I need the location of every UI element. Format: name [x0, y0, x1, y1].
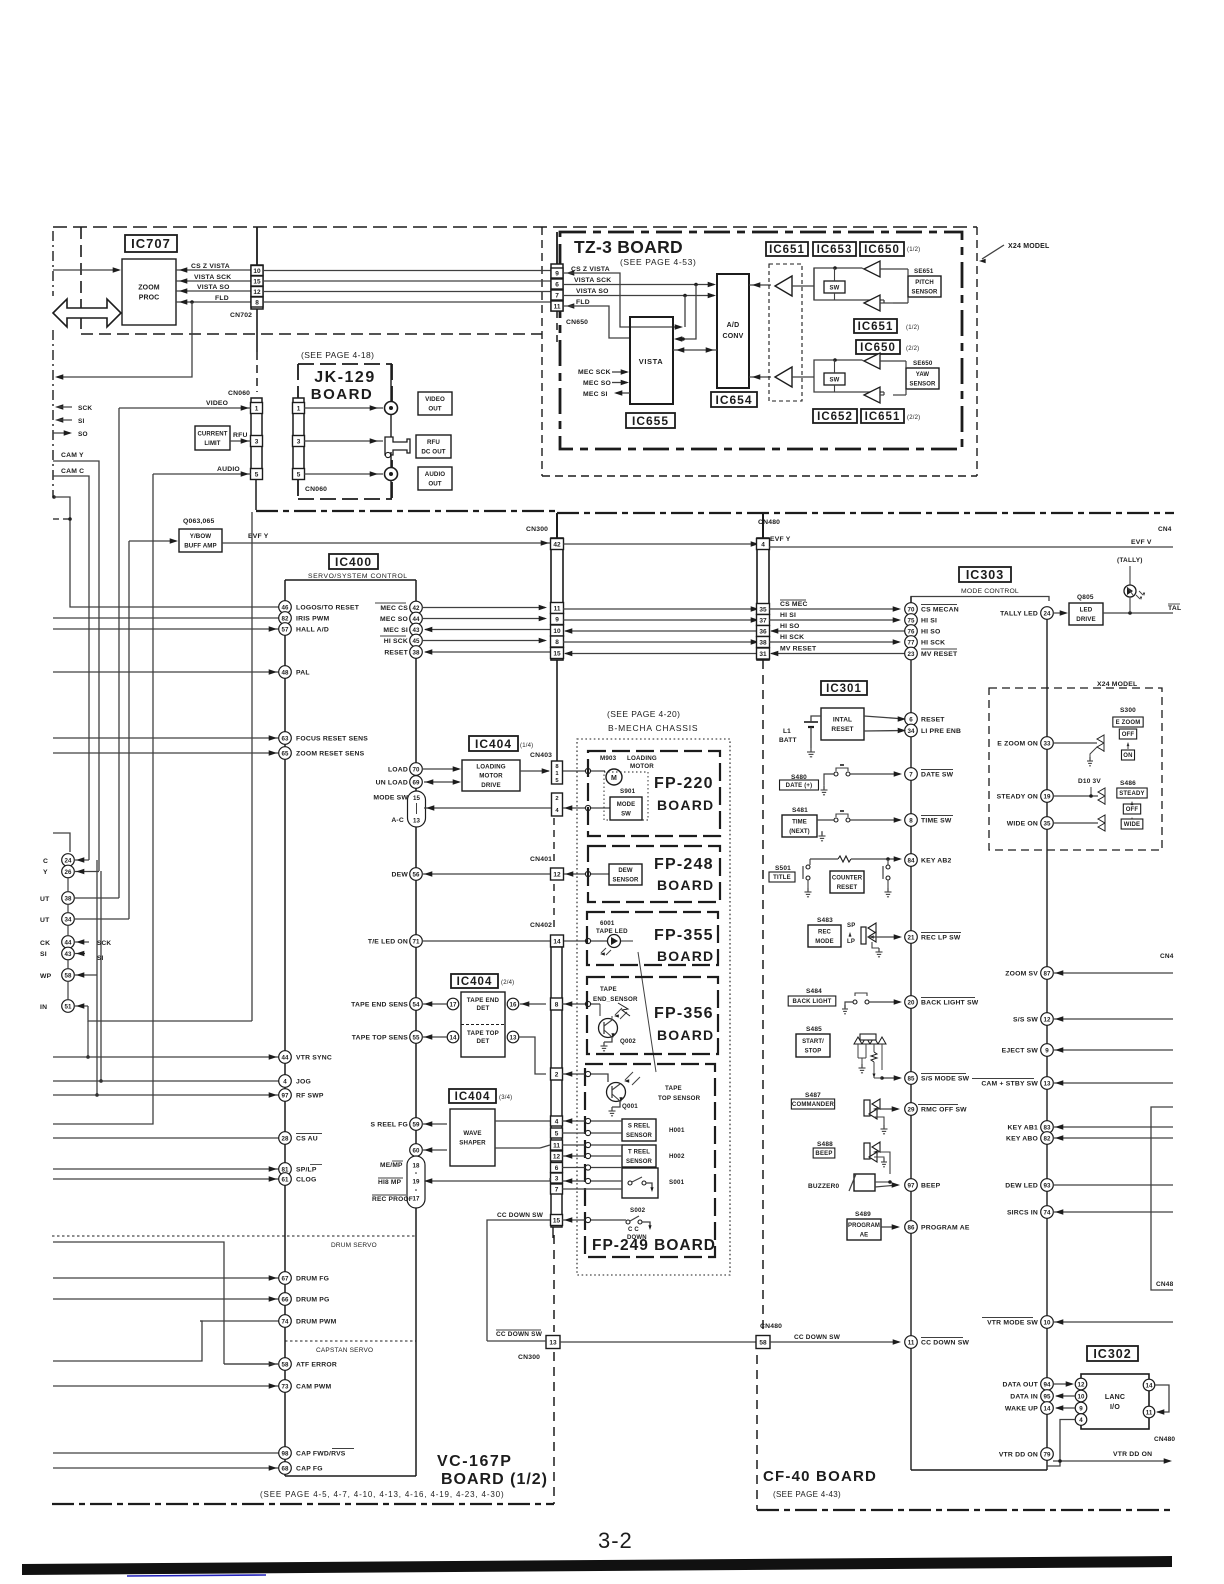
LANC pin 4	[1075, 1414, 1087, 1426]
svg-text:63: 63	[282, 735, 289, 742]
bus row3 CN300-CN480	[565, 630, 763, 632]
svg-text:3-2: 3-2	[598, 1528, 633, 1553]
S REEL SENSOR box	[622, 1119, 656, 1141]
svg-text:CN650: CN650	[566, 319, 588, 326]
svg-text:WIDE ON: WIDE ON	[1007, 821, 1038, 828]
svg-text:13: 13	[510, 1034, 517, 1041]
IC400 pin 43 MEC SI	[410, 623, 423, 636]
CN48 bracket right	[1151, 1107, 1173, 1290]
svg-text:BEEP: BEEP	[921, 1183, 941, 1190]
IC303 pin 14 WAKE UP	[1041, 1402, 1054, 1415]
svg-text:S484: S484	[806, 988, 822, 995]
LANC pin 12	[1075, 1378, 1087, 1390]
svg-text:MODE: MODE	[815, 939, 833, 945]
svg-text:DEW: DEW	[618, 868, 633, 874]
svg-text:SCK: SCK	[78, 405, 92, 412]
wire S/S SW row	[1053, 1018, 1173, 1020]
svg-text:BOARD: BOARD	[657, 797, 714, 813]
svg-text:SE650: SE650	[913, 360, 933, 367]
svg-text:8: 8	[255, 299, 259, 306]
buffer triangle pitch upper	[864, 261, 880, 277]
wire to pin 46 upper corner	[52, 495, 56, 499]
wire SI stub	[55, 417, 63, 423]
wire CS Z VISTA	[176, 269, 251, 271]
svg-text:AE: AE	[860, 1232, 869, 1238]
IC301 INTAL RESET box	[821, 708, 864, 740]
buffer triangle pitch lower	[864, 295, 880, 311]
svg-text:CN300: CN300	[518, 1354, 540, 1361]
svg-text:EVF Y: EVF Y	[248, 533, 269, 540]
svg-text:LANC: LANC	[1105, 1394, 1125, 1401]
svg-text:CS AU: CS AU	[296, 1136, 318, 1143]
svg-text:FLD: FLD	[215, 295, 229, 302]
TZ-3 board inner dash-dot border	[560, 232, 962, 449]
svg-text:DRUM FG: DRUM FG	[296, 1276, 329, 1283]
wire CN702 down towards CN060 (dashed board boundary)	[256, 309, 258, 352]
svg-text:CS MEC: CS MEC	[780, 601, 808, 608]
svg-text:EJECT SW: EJECT SW	[1002, 1048, 1039, 1055]
svg-text:IC400: IC400	[335, 555, 372, 569]
IC303 pin 84 KEY AB2	[905, 854, 918, 867]
LANC pin 10	[1075, 1390, 1087, 1402]
svg-text:CN702: CN702	[230, 312, 252, 319]
svg-text:34: 34	[908, 728, 915, 735]
IC400 pin 71 T/E LED ON	[410, 935, 423, 948]
svg-text:51: 51	[65, 1003, 72, 1010]
svg-text:VTR MODE SW: VTR MODE SW	[987, 1320, 1038, 1327]
IC303 pin 29 RMC OFF SW	[905, 1103, 918, 1116]
svg-text:PROGRAM: PROGRAM	[848, 1223, 880, 1229]
svg-text:VIDEO: VIDEO	[206, 400, 228, 407]
svg-text:10: 10	[1078, 1393, 1085, 1400]
svg-text:9: 9	[555, 616, 559, 623]
svg-text:CLOG: CLOG	[296, 1177, 316, 1184]
svg-text:T REEL: T REEL	[628, 1150, 650, 1156]
wire CN060 bottom stub	[255, 479, 257, 510]
svg-text:TAPE END SENS: TAPE END SENS	[351, 1002, 408, 1009]
svg-text:S501: S501	[775, 865, 791, 872]
svg-text:BATT: BATT	[779, 737, 797, 744]
IC400 pin 4 JOG	[53, 1080, 279, 1082]
svg-text:DRUM PWM: DRUM PWM	[296, 1319, 337, 1326]
IC400 pin 51 left	[62, 1000, 75, 1013]
IC400 wire pin69 UN LOAD	[424, 781, 459, 783]
IC400 pin 44 left	[62, 936, 75, 949]
svg-text:97: 97	[282, 1092, 289, 1099]
svg-text:IC655: IC655	[632, 414, 669, 428]
wire pin51 riser	[88, 1006, 252, 1021]
svg-text:JOG: JOG	[296, 1079, 311, 1086]
svg-text:(SEE PAGE 4-53): (SEE PAGE 4-53)	[620, 257, 696, 267]
svg-text:CN4: CN4	[1160, 953, 1174, 960]
svg-text:S483: S483	[817, 917, 833, 924]
switch SW pitch	[824, 281, 845, 293]
svg-text:DATE SW: DATE SW	[921, 772, 954, 779]
IC400 pin 60 nc	[410, 1144, 423, 1157]
svg-text:74: 74	[282, 1318, 289, 1325]
svg-text:IN: IN	[40, 1004, 47, 1011]
svg-text:SENSOR: SENSOR	[910, 381, 937, 387]
svg-text:CS MECAN: CS MECAN	[921, 607, 959, 614]
TZ-3 outer dashed box	[541, 227, 543, 476]
IC654 label	[711, 392, 757, 407]
IC303 pin 6 RESET	[905, 713, 918, 726]
svg-text:RFU: RFU	[233, 432, 248, 439]
wire atf feeder	[53, 1242, 224, 1364]
wire CN650 stub down dashed	[556, 311, 558, 345]
svg-text:44: 44	[65, 939, 72, 946]
svg-text:RF SWP: RF SWP	[296, 1093, 324, 1100]
LANC pin 11	[1143, 1406, 1155, 1418]
svg-text:66: 66	[282, 1296, 289, 1303]
wire KEY ABO row	[1053, 1137, 1173, 1139]
svg-text:D10 3V: D10 3V	[1078, 778, 1101, 785]
wire 19 to pin3	[425, 1180, 550, 1182]
IC404 label 1/4	[469, 736, 518, 751]
yaw sensor block rails	[814, 360, 862, 377]
wire drum pwm feeder	[53, 1321, 202, 1361]
loading motor drive box	[462, 760, 520, 791]
wire CAM STBY row	[1053, 1082, 1173, 1084]
svg-text:VISTA: VISTA	[639, 357, 664, 366]
svg-text:74: 74	[1044, 1209, 1051, 1216]
VC-167P bottom dash-dot border	[52, 1503, 554, 1505]
svg-text:DRUM PG: DRUM PG	[296, 1297, 330, 1304]
svg-text:CN403: CN403	[530, 752, 552, 759]
wire CN300 bottom stub	[556, 660, 558, 763]
svg-text:10: 10	[1044, 1319, 1051, 1326]
svg-text:12: 12	[553, 1153, 561, 1160]
IC400 pin 54 TAPE END SENS	[410, 998, 423, 1011]
svg-text:CURRENT: CURRENT	[197, 432, 227, 438]
IC303 pin 95 DATA IN	[1041, 1390, 1054, 1403]
wire S481 to pin8	[817, 819, 834, 821]
svg-text:(1/2): (1/2)	[907, 247, 920, 253]
wire buzzer to pin97	[875, 1181, 890, 1183]
svg-text:(1/2): (1/2)	[906, 325, 919, 331]
svg-text:31: 31	[759, 651, 767, 658]
svg-text:94: 94	[1044, 1381, 1051, 1388]
svg-text:START/: START/	[802, 1039, 824, 1045]
wires pins1112 to t reel	[562, 1144, 622, 1146]
svg-text:DRUM SERVO: DRUM SERVO	[331, 1242, 377, 1249]
svg-text:S300: S300	[1120, 707, 1136, 714]
svg-text:SW: SW	[621, 811, 631, 817]
svg-text:17: 17	[413, 1196, 420, 1203]
svg-text:UN LOAD: UN LOAD	[376, 780, 408, 787]
IC303 pin 94 DATA OUT	[1041, 1378, 1054, 1391]
svg-text:Y: Y	[43, 869, 48, 876]
FP-248 board dashed box	[588, 846, 720, 902]
svg-text:2: 2	[555, 1071, 559, 1078]
IC651 label mid	[854, 319, 897, 333]
svg-text:S489: S489	[855, 1211, 871, 1218]
IC400 pins 15 13 stadium	[408, 791, 426, 827]
svg-text:BOARD: BOARD	[311, 386, 374, 403]
svg-text:CC DOWN SW: CC DOWN SW	[497, 1212, 544, 1219]
svg-text:TAL: TAL	[1168, 605, 1181, 612]
IC400 pin 38 left	[62, 892, 75, 905]
svg-text:85: 85	[908, 1075, 915, 1082]
pitch sensor block rails	[814, 268, 862, 286]
wire IC301 to pin34	[864, 730, 905, 733]
svg-text:9: 9	[1079, 1405, 1083, 1412]
wire pin8 row to FP-356	[562, 1003, 600, 1005]
phototransistor Q001	[607, 1083, 626, 1102]
svg-text:S REEL FG: S REEL FG	[370, 1122, 408, 1129]
svg-text:11: 11	[553, 1142, 560, 1149]
svg-text:EVF V: EVF V	[1131, 539, 1152, 546]
svg-text:14: 14	[450, 1034, 457, 1041]
svg-text:AUDIO: AUDIO	[425, 471, 446, 478]
IC400 pin 61 CLOG	[53, 1178, 279, 1180]
svg-text:BOARD: BOARD	[657, 1027, 714, 1043]
wire CN702 stub up to board border	[256, 227, 258, 265]
svg-text:E ZOOM: E ZOOM	[1116, 720, 1141, 726]
svg-text:79: 79	[1044, 1451, 1051, 1458]
svg-text:CAP FWD/RVS: CAP FWD/RVS	[296, 1451, 346, 1458]
svg-text:CC DOWN SW: CC DOWN SW	[496, 1331, 543, 1338]
svg-text:FP-220: FP-220	[654, 775, 714, 792]
wire EJECT SW row	[1053, 1049, 1173, 1051]
svg-text:ON: ON	[1123, 753, 1132, 759]
svg-text:MODE: MODE	[617, 802, 635, 808]
svg-text:VIDEO: VIDEO	[425, 396, 445, 403]
svg-text:SP/LP: SP/LP	[296, 1167, 317, 1174]
svg-text:12: 12	[1078, 1381, 1085, 1388]
IC653 label top	[813, 242, 856, 256]
X24 MODEL dashed box	[989, 688, 1162, 850]
svg-text:59: 59	[413, 1121, 420, 1128]
svg-text:CN48: CN48	[1156, 1281, 1174, 1288]
wave shaper box	[450, 1109, 495, 1166]
wire wake up	[1056, 1407, 1075, 1409]
STEADY ON wire and contact	[1053, 795, 1098, 797]
svg-text:RMC OFF SW: RMC OFF SW	[921, 1107, 967, 1114]
wire data in	[1056, 1395, 1075, 1397]
svg-text:SENSOR: SENSOR	[613, 877, 640, 883]
mode sw box	[610, 797, 642, 820]
IC303 pin 86 PROGRAM AE	[905, 1221, 918, 1234]
IC303 pin 82 KEY ABO	[1041, 1132, 1054, 1145]
svg-text:CS Z VISTA: CS Z VISTA	[571, 266, 610, 273]
svg-text:BUFF AMP: BUFF AMP	[184, 542, 217, 549]
Q001 light arrows	[625, 1072, 633, 1080]
wire S485 to pin85	[882, 1077, 900, 1079]
IC400 pin 81 SP/LP	[53, 1168, 279, 1170]
wire IC301 to pin6	[864, 716, 905, 719]
IC400 pin 34 left	[62, 913, 75, 926]
svg-text:SCK: SCK	[97, 940, 111, 947]
svg-text:CF-40 BOARD: CF-40 BOARD	[763, 1468, 877, 1485]
IC400 pin 48 PAL	[53, 671, 279, 673]
IC400 pin 55 TAPE TOP SENS	[410, 1031, 423, 1044]
svg-text:DRIVE: DRIVE	[1076, 616, 1095, 623]
CF-40 bottom dash-dot border	[757, 1509, 1171, 1511]
svg-text:4: 4	[1079, 1417, 1083, 1424]
svg-text:TIME: TIME	[792, 820, 807, 826]
wires CN702 to TZ-3 CN650 bus	[263, 270, 551, 272]
svg-text:REC LP SW: REC LP SW	[921, 935, 961, 942]
JK-129 board dashed outline	[298, 363, 392, 365]
svg-text:77: 77	[908, 639, 915, 646]
IC651 label top	[766, 242, 808, 256]
svg-text:24: 24	[1044, 610, 1051, 617]
svg-text:36: 36	[759, 628, 767, 635]
WIDE ON wire and contact	[1053, 822, 1098, 824]
svg-text:YAW: YAW	[916, 372, 930, 378]
IC303 bottom link	[911, 1469, 1047, 1471]
wire CN650 stub up	[556, 232, 558, 264]
svg-text:S487: S487	[805, 1092, 821, 1099]
svg-text:C C: C C	[628, 1227, 639, 1233]
IC303 pin 74 SIRCS IN	[1041, 1206, 1054, 1219]
svg-text:FP-356: FP-356	[654, 1005, 714, 1022]
IC303 pin 70 CS MECAN	[905, 603, 918, 616]
svg-text:MOTOR: MOTOR	[630, 763, 654, 770]
svg-text:CN480: CN480	[1154, 1436, 1175, 1443]
svg-text:15: 15	[413, 795, 420, 802]
IC655 VISTA box	[630, 317, 673, 404]
svg-text:IC650: IC650	[864, 244, 900, 256]
svg-text:3: 3	[255, 438, 259, 445]
svg-text:HI SI: HI SI	[780, 612, 796, 619]
IC400 pin 42 MEC CS	[410, 601, 423, 614]
IC303 right vertical	[1046, 607, 1048, 1470]
svg-text:IC302: IC302	[1093, 1347, 1131, 1361]
svg-text:H002: H002	[669, 1153, 685, 1160]
switch SW yaw	[824, 373, 845, 385]
svg-text:JK-129: JK-129	[314, 369, 375, 386]
connector CN650	[551, 264, 563, 311]
svg-text:SIRCS IN: SIRCS IN	[1007, 1210, 1038, 1217]
svg-text:RESET: RESET	[921, 717, 945, 724]
svg-text:TALLY LED: TALLY LED	[1000, 611, 1038, 618]
svg-text:Q001: Q001	[622, 1103, 638, 1110]
separator CAPSTAN SERVO	[285, 1340, 416, 1342]
svg-text:7: 7	[555, 1186, 559, 1193]
svg-text:T/E LED ON: T/E LED ON	[368, 939, 408, 946]
wire VTR MODE SW row	[1053, 1321, 1173, 1323]
jack RFU DC OUT	[385, 437, 410, 455]
IC400 pin 98 CAP FWD/RVS	[53, 1452, 279, 1454]
svg-text:35: 35	[1044, 820, 1051, 827]
svg-text:SI: SI	[97, 955, 104, 962]
top dash-dot border of VC-167P and CF-40 boards	[256, 510, 557, 512]
svg-text:46: 46	[282, 604, 289, 611]
svg-text:S901: S901	[620, 788, 636, 795]
svg-text:6: 6	[555, 281, 559, 288]
svg-text:60: 60	[413, 1147, 420, 1154]
svg-text:DATE (+): DATE (+)	[786, 783, 813, 789]
svg-text:6: 6	[555, 1165, 559, 1172]
IC400 pin 44 VTR SYNC	[53, 1056, 279, 1058]
IC303 pin 87 ZOOM SV	[1041, 967, 1054, 980]
svg-text:OFF: OFF	[1122, 732, 1135, 738]
net vertical x129 to pin 34	[128, 541, 130, 919]
s/s multi contact symbol	[854, 1037, 862, 1044]
IC400 pin 65 ZOOM RESET SENS	[53, 752, 279, 754]
svg-text:4: 4	[283, 1078, 287, 1085]
IC652 label bottom	[813, 409, 857, 423]
IC303 pin 21 REC LP SW	[905, 931, 918, 944]
IC303 pin 9 EJECT SW	[1041, 1044, 1054, 1057]
svg-text:BOARD (1/2): BOARD (1/2)	[441, 1471, 548, 1488]
svg-text:TIME SW: TIME SW	[921, 818, 952, 825]
connector long strip CN402b	[551, 947, 562, 1227]
wire into buff amp	[129, 540, 176, 542]
IC303 pin 10 VTR MODE SW	[1041, 1316, 1054, 1329]
wire SCK stub	[55, 404, 63, 410]
svg-text:S REEL: S REEL	[628, 1124, 651, 1130]
svg-text:95: 95	[1044, 1393, 1051, 1400]
svg-text:LI PRE ENB: LI PRE ENB	[921, 728, 961, 735]
svg-text:X24 MODEL: X24 MODEL	[1008, 243, 1050, 250]
svg-text:(2/2): (2/2)	[906, 346, 919, 352]
svg-text:37: 37	[759, 617, 767, 624]
svg-text:58: 58	[759, 1339, 767, 1346]
svg-text:MOTOR: MOTOR	[479, 773, 503, 780]
wire T/E LED ON pin71	[422, 940, 550, 942]
svg-text:VISTA SCK: VISTA SCK	[194, 274, 231, 281]
op-amp yaw buffer	[775, 367, 792, 387]
IC303 pin 35 WIDE ON	[1041, 817, 1054, 830]
wire SO stub	[53, 432, 70, 434]
net VIDEO vertical from pin 38	[118, 408, 120, 898]
svg-text:13: 13	[413, 818, 420, 825]
svg-text:33: 33	[1044, 740, 1051, 747]
svg-text:BEEP: BEEP	[815, 1151, 832, 1157]
svg-text:(TALLY): (TALLY)	[1117, 557, 1143, 564]
svg-text:4: 4	[555, 1118, 559, 1125]
IC655 label	[626, 413, 675, 428]
svg-text:CAPSTAN SERVO: CAPSTAN SERVO	[316, 1347, 373, 1354]
wire lanc pin4 loop	[1047, 1420, 1075, 1467]
IC303 pin 12 S/S SW	[1041, 1013, 1054, 1026]
svg-text:I/O: I/O	[1110, 1404, 1120, 1411]
FP-220 board dashed box	[588, 751, 720, 836]
svg-text:MEC SO: MEC SO	[583, 380, 611, 387]
svg-text:HI8 MP: HI8 MP	[378, 1179, 402, 1186]
svg-text:WAVE: WAVE	[463, 1130, 481, 1137]
FP-356 board dashed box	[587, 977, 718, 1054]
svg-text:UT: UT	[40, 917, 50, 924]
svg-text:IC651: IC651	[858, 321, 894, 333]
IC400 pin 70 LOAD	[410, 763, 423, 776]
svg-text:FP-355: FP-355	[654, 927, 714, 944]
svg-text:RFU: RFU	[427, 439, 440, 446]
IC303 pin 77 HI SCK	[905, 636, 918, 649]
svg-text:HI SO: HI SO	[780, 623, 800, 630]
svg-text:WIDE: WIDE	[1124, 822, 1140, 828]
svg-text:CN4: CN4	[1158, 526, 1172, 533]
svg-text:5: 5	[555, 1130, 559, 1137]
svg-text:A/D: A/D	[727, 322, 740, 329]
svg-text:MODE CONTROL: MODE CONTROL	[961, 588, 1019, 595]
svg-text:ZOOM SV: ZOOM SV	[1005, 971, 1038, 978]
IC654 A/D CONV box	[717, 274, 749, 388]
wire SIRCS IN row	[1053, 1211, 1173, 1213]
IC404 label 2/4	[451, 974, 498, 988]
svg-text:VISTA SO: VISTA SO	[576, 288, 609, 295]
wire pin24 to led drive	[1053, 612, 1066, 614]
IC302 LANC IO box	[1081, 1374, 1149, 1429]
wire CN403 row4 to mode sw	[563, 807, 610, 809]
svg-text:MEC SO: MEC SO	[380, 616, 408, 623]
svg-text:SI: SI	[78, 418, 85, 425]
IC303 pin 97 BEEP	[905, 1179, 918, 1192]
LANC pin 14	[1143, 1379, 1155, 1391]
